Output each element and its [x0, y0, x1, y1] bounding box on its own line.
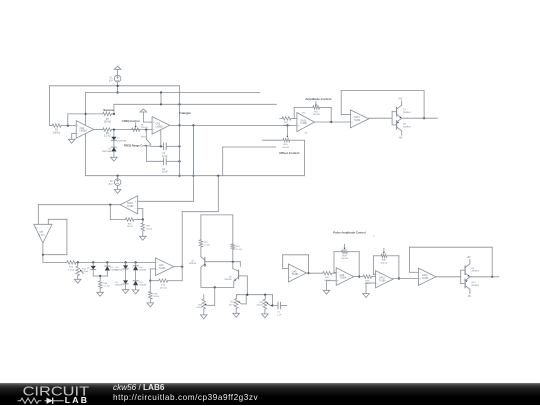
svg-text:Q9: Q9 [471, 268, 475, 270]
wire [222, 147, 224, 176]
wire [290, 139, 305, 141]
svg-text:-8V: -8V [467, 296, 471, 298]
logo wire and resistor [18, 398, 42, 403]
wire [410, 271, 419, 273]
resistor R7 [103, 112, 112, 116]
wire [272, 305, 278, 307]
junction [67, 125, 69, 127]
svg-text:Q7: Q7 [403, 109, 407, 111]
svg-text:+8V: +8V [466, 257, 471, 259]
junction [214, 286, 216, 288]
junction [113, 113, 115, 115]
logo diode [45, 399, 47, 401]
ground [114, 189, 121, 193]
credit line [113, 383, 164, 392]
wire [72, 133, 77, 135]
svg-text:TL082: TL082 [127, 206, 134, 208]
wire [150, 268, 155, 270]
junction [142, 218, 144, 220]
op-amp OA13 [297, 113, 315, 132]
wire [205, 261, 241, 263]
wire [146, 147, 148, 162]
junction [192, 124, 194, 126]
svg-text:100 Ω: 100 Ω [196, 307, 202, 309]
wire [334, 271, 336, 273]
svg-text:Q6: Q6 [229, 276, 233, 278]
junction [160, 145, 162, 147]
svg-text:100 kΩ: 100 kΩ [141, 127, 148, 129]
wire [167, 145, 180, 147]
svg-text:Offset Control: Offset Control [279, 151, 299, 155]
svg-text:R15: R15 [161, 285, 166, 287]
ground [262, 314, 269, 318]
wire [491, 247, 493, 277]
svg-text:R12: R12 [69, 267, 74, 269]
power flag (inverted ground) at OA2 + [140, 109, 147, 112]
wire [470, 276, 499, 278]
svg-text:2N3906: 2N3906 [471, 285, 479, 287]
wire [117, 82, 119, 93]
junction [149, 280, 151, 282]
svg-text:D1: D1 [117, 138, 121, 140]
svg-text:5.1 kΩ: 5.1 kΩ [104, 136, 111, 138]
wire [125, 262, 127, 265]
svg-text:C2: C2 [162, 169, 166, 171]
svg-text:Q8: Q8 [403, 124, 407, 126]
diode D9 [123, 280, 128, 284]
junction [113, 129, 115, 131]
svg-text:5.1 kΩ: 5.1 kΩ [236, 249, 243, 251]
wire [340, 91, 342, 115]
svg-text:2N3906: 2N3906 [403, 126, 411, 128]
svg-text:100 kΩ: 100 kΩ [313, 114, 320, 116]
svg-text:R27: R27 [325, 277, 330, 279]
svg-text:2N3904: 2N3904 [224, 279, 232, 281]
wire [374, 274, 376, 276]
wire [113, 130, 115, 137]
junction [358, 276, 360, 278]
wire [314, 121, 350, 123]
wire [223, 146, 276, 148]
diode D11 [133, 281, 138, 285]
wire [398, 256, 400, 279]
wire [358, 252, 360, 277]
junction [160, 91, 162, 93]
wire [50, 85, 180, 87]
svg-text:-8 V: -8 V [108, 183, 113, 186]
wire [365, 283, 367, 294]
svg-text:R6: R6 [106, 133, 110, 135]
wire [93, 275, 107, 277]
wire [271, 295, 273, 306]
wire [320, 106, 332, 108]
transistor Q7 [392, 111, 397, 113]
op-amp OA8 [288, 264, 306, 282]
junction [178, 124, 180, 126]
junction [117, 85, 119, 87]
wire [201, 286, 234, 288]
svg-text:TL084: TL084 [292, 274, 299, 276]
junction [330, 121, 332, 123]
svg-text:+8V: +8V [398, 99, 403, 101]
resistor R16 [110, 219, 125, 221]
svg-text:100 kΩ: 100 kΩ [104, 122, 112, 124]
svg-text:OA13: OA13 [300, 119, 307, 122]
svg-text:D7: D7 [110, 267, 114, 269]
svg-text:R29: R29 [365, 280, 370, 282]
wire [92, 270, 94, 276]
wire [48, 218, 67, 220]
wire [135, 262, 137, 265]
wire [47, 219, 49, 224]
svg-text:2N3904: 2N3904 [471, 271, 479, 273]
wire [436, 276, 461, 278]
junction [398, 277, 400, 279]
svg-text:TL084: TL084 [379, 280, 386, 282]
wire [264, 309, 266, 314]
svg-text:R17: R17 [146, 226, 151, 228]
diode D2 [111, 147, 116, 151]
svg-text:LM358: LM358 [156, 126, 164, 128]
resistor R27 [306, 272, 322, 274]
wire [239, 262, 241, 267]
transistor Q5 [201, 257, 205, 260]
svg-text:TL084: TL084 [354, 120, 361, 122]
resistor R20 [280, 117, 282, 119]
svg-text:D10: D10 [139, 267, 144, 269]
svg-text:-8V: -8V [399, 138, 403, 140]
wire [113, 152, 115, 158]
capacitor C2 [163, 158, 165, 165]
svg-text:OA6: OA6 [39, 231, 44, 234]
svg-text:R30: R30 [382, 260, 387, 262]
svg-text:2N3904: 2N3904 [403, 112, 411, 114]
wire [203, 309, 205, 315]
svg-text:100 Ω: 100 Ω [146, 228, 152, 230]
wire [138, 200, 194, 202]
ground [201, 315, 208, 319]
wire [117, 185, 119, 189]
svg-text:R18: R18 [153, 293, 158, 295]
wire [192, 125, 194, 175]
wire [341, 90, 424, 92]
svg-text:100 kΩ: 100 kΩ [282, 147, 289, 149]
wire [113, 140, 115, 147]
potentiometer R13 [77, 262, 79, 266]
svg-text:TL084: TL084 [422, 278, 429, 280]
wire [200, 247, 202, 257]
svg-text:+8V: +8V [301, 113, 305, 115]
wire [43, 261, 67, 263]
ground [132, 290, 139, 294]
resistor R18 [149, 281, 151, 292]
wire [125, 269, 127, 280]
svg-text:100 kΩ: 100 kΩ [160, 287, 167, 289]
svg-text:Q10: Q10 [471, 282, 476, 284]
svg-text:OA8: OA8 [292, 270, 297, 273]
ground [233, 313, 240, 317]
svg-text:C5: C5 [277, 312, 281, 314]
svg-text:8 V: 8 V [109, 80, 113, 83]
svg-text:TL084: TL084 [38, 234, 45, 236]
svg-text:R22: R22 [204, 242, 209, 244]
wire [113, 104, 115, 114]
junction [117, 175, 119, 177]
potentiometer R24 [202, 299, 206, 309]
svg-text:D2: D2 [108, 148, 112, 150]
wire [237, 294, 273, 296]
diode D6 [91, 266, 96, 270]
potentiometer R5 FREQ Control [132, 128, 140, 132]
junction [192, 175, 194, 177]
capacitor C5 [277, 302, 279, 309]
svg-text:D11: D11 [139, 282, 144, 284]
svg-text:OA15: OA15 [127, 202, 134, 205]
ground [323, 290, 330, 294]
junction [423, 117, 425, 119]
logo LAB text [65, 395, 89, 405]
wire [326, 281, 328, 291]
wire [293, 107, 295, 118]
wire [37, 205, 39, 225]
wire [167, 160, 180, 162]
svg-text:Triangle: Triangle [179, 111, 191, 115]
resistor R15 [150, 280, 158, 282]
switch FM1 [145, 130, 147, 140]
potentiometer R24 Offset [283, 138, 290, 142]
wire [147, 160, 164, 162]
wire [264, 295, 266, 300]
wire [393, 278, 419, 280]
resistor R17 [142, 220, 144, 223]
svg-text:100 kΩ: 100 kΩ [341, 258, 348, 260]
svg-text:Amplitude Control: Amplitude Control [305, 97, 331, 101]
transistor Q10 [461, 282, 465, 284]
svg-text:R24: R24 [283, 144, 288, 146]
svg-text:2.2 kΩ: 2.2 kΩ [68, 269, 75, 271]
wire [246, 276, 248, 295]
svg-text:1N4148: 1N4148 [139, 285, 147, 287]
op-amp OA2 [152, 117, 169, 135]
wire [402, 117, 438, 119]
wire [106, 271, 108, 277]
wire [262, 139, 283, 141]
svg-text:100 kΩ: 100 kΩ [256, 305, 263, 307]
svg-text:-8V: -8V [304, 133, 308, 135]
voltage source V1 [114, 75, 121, 82]
wire [85, 93, 87, 176]
wire [135, 270, 137, 281]
wire [99, 288, 101, 292]
ground [97, 292, 104, 296]
diode D7 [105, 266, 110, 270]
wire [391, 112, 393, 125]
svg-text:R1: R1 [55, 130, 59, 132]
wire [200, 267, 202, 287]
wire [410, 246, 493, 248]
svg-text:100 kΩ: 100 kΩ [53, 132, 61, 134]
wire [233, 281, 235, 287]
wire [68, 113, 103, 115]
svg-text:Pulse Amplitude Control: Pulse Amplitude Control [333, 230, 366, 234]
junction [99, 275, 101, 277]
potentiometer R21 [313, 106, 320, 110]
CircuitLab logo CIRCUIT text [22, 385, 102, 406]
svg-text:Square: Square [103, 108, 114, 112]
svg-text:100 Ω: 100 Ω [229, 304, 235, 306]
junction [232, 261, 234, 263]
wire [160, 93, 162, 105]
junction [178, 160, 180, 162]
junction [160, 103, 162, 105]
diode D10 [133, 266, 138, 270]
junction [246, 294, 248, 296]
wire [86, 175, 305, 177]
svg-text:D8: D8 [116, 267, 120, 269]
svg-text:100 Ω: 100 Ω [127, 226, 133, 228]
junction [491, 276, 493, 278]
junction [77, 261, 79, 263]
svg-text:R20: R20 [284, 122, 289, 124]
svg-text:100 Ω: 100 Ω [364, 283, 370, 285]
svg-text:FM1: FM1 [141, 136, 146, 138]
svg-text:TL084: TL084 [340, 278, 347, 280]
wire [192, 125, 194, 201]
svg-text:w: w [373, 236, 375, 238]
capacitor C1 [163, 143, 165, 150]
wire [114, 103, 276, 105]
junction [109, 204, 111, 206]
resistor R1 [52, 124, 61, 128]
transistor Q8 [392, 124, 397, 126]
op-amp OA6 (down-pointing) [34, 224, 52, 243]
svg-text:5.1 kΩ: 5.1 kΩ [204, 245, 211, 247]
junction [307, 272, 309, 274]
svg-text:1N4734A: 1N4734A [117, 139, 127, 142]
potentiometer R25 [234, 299, 238, 309]
wire [43, 254, 67, 256]
wire [170, 124, 297, 126]
op-amp OA16 [418, 268, 436, 285]
wire [181, 212, 183, 281]
wire [149, 299, 151, 303]
ground [111, 157, 118, 161]
svg-text:OA16: OA16 [422, 274, 429, 277]
junction [85, 113, 87, 115]
wire [232, 250, 234, 269]
resistor R12 [67, 261, 76, 265]
wire [201, 214, 233, 216]
resistor R29 [354, 276, 363, 278]
wire [373, 256, 375, 275]
potentiometer R30 [374, 255, 382, 257]
wire [106, 262, 108, 266]
svg-text:OA10: OA10 [379, 277, 386, 280]
wire [327, 280, 337, 282]
svg-text:1N4734A: 1N4734A [102, 150, 112, 153]
wire [111, 129, 152, 131]
wire [214, 287, 216, 305]
power flag +8V (inverted ground) at V1 [114, 66, 121, 69]
svg-text:1 uF: 1 uF [277, 314, 282, 316]
wire [303, 140, 305, 176]
svg-text:100 kΩ: 100 kΩ [380, 262, 387, 264]
wire [283, 268, 289, 270]
svg-text:10 uF: 10 uF [162, 156, 168, 158]
footer bar [0, 383, 540, 405]
wire [207, 304, 215, 306]
svg-text:Q5: Q5 [191, 261, 195, 263]
wire [151, 145, 164, 147]
svg-text:C1: C1 [162, 153, 166, 155]
wire [239, 275, 248, 277]
wire [366, 282, 376, 284]
svg-text:TL084: TL084 [159, 268, 166, 270]
resistor R22 [199, 240, 203, 247]
junction [42, 254, 44, 256]
svg-text:D9: D9 [116, 282, 120, 284]
svg-text:1N4148: 1N4148 [139, 270, 147, 272]
wire [138, 208, 143, 210]
svg-text:100 Ω: 100 Ω [153, 296, 159, 298]
svg-text:R14: R14 [103, 283, 108, 285]
wire [236, 295, 238, 299]
resistor R6 [94, 129, 103, 131]
wire [86, 92, 260, 94]
wire [174, 266, 182, 268]
wire [135, 285, 137, 290]
svg-text:FREQ Range Control: FREQ Range Control [124, 143, 150, 147]
svg-text:LM358: LM358 [80, 131, 88, 133]
wire [149, 269, 151, 281]
wire [369, 117, 392, 119]
wire [282, 255, 284, 269]
svg-text:R28: R28 [342, 255, 347, 257]
svg-text:100 kΩ: 100 kΩ [283, 125, 290, 127]
svg-text:OA9: OA9 [340, 274, 345, 277]
op-amp OA15 [120, 196, 137, 214]
svg-text:R23: R23 [236, 246, 241, 248]
wire [308, 255, 310, 273]
transistor Q9 [461, 269, 465, 271]
wire [182, 211, 218, 213]
op-amp OA10 [376, 271, 393, 288]
op-amp OA14 [350, 110, 368, 128]
wire [92, 262, 94, 266]
potentiometer R26 [263, 299, 267, 309]
op-amp OA4 [155, 258, 173, 276]
transistor Q6 [233, 268, 239, 271]
resistor R23 [231, 244, 235, 250]
wire [77, 276, 79, 280]
ground [122, 290, 129, 294]
wire [200, 215, 202, 240]
diode D8 [123, 265, 128, 269]
wire [125, 284, 127, 289]
wire [294, 106, 313, 108]
junction [181, 266, 183, 268]
wire [49, 86, 51, 126]
svg-text:R16: R16 [128, 223, 133, 225]
ground [363, 294, 370, 298]
svg-text:TL084: TL084 [300, 123, 307, 125]
potentiometer R28 [334, 251, 342, 253]
svg-text:1.8 kΩ: 1.8 kΩ [82, 271, 89, 273]
ground [68, 139, 75, 143]
resistor R14 [99, 276, 101, 281]
wire [423, 91, 425, 119]
ground [74, 279, 81, 283]
